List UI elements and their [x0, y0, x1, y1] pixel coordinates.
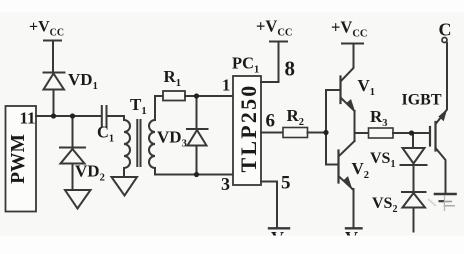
wire VD1 anode to node A [53, 90, 55, 117]
wire T1 primary to ground [123, 168, 125, 177]
IGBT collector arrowhead [439, 110, 447, 121]
svg-text:IGBT: IGBT [402, 92, 442, 109]
diode VD3 [187, 129, 208, 146]
wire VS1 to VS2 [413, 165, 415, 192]
wire T1 secondary bottom to PC1 pin 3 [155, 168, 233, 175]
wire V1 base to rail [326, 89, 341, 91]
capacitor C1 [102, 106, 107, 126]
+Vcc supply 3 bar (above V1) [342, 43, 363, 45]
svg-text:1: 1 [222, 76, 230, 95]
transistor V2 collector wire [340, 141, 355, 156]
wire VD3 anode to node C [196, 146, 198, 175]
ground (below VD2) [65, 190, 91, 209]
svg-text:PWM: PWM [8, 134, 29, 184]
IGBT collector [436, 43, 447, 124]
transistor V2 emitter arrowhead [344, 177, 352, 188]
transformer T1 primary winding [124, 120, 130, 168]
svg-text:6: 6 [266, 111, 276, 132]
transistor V1 collector wire from +Vcc3 [342, 44, 354, 81]
diode VD1 [44, 73, 65, 90]
node +Vcc2 bar [270, 41, 287, 43]
terminal C circle [442, 38, 447, 43]
-Vcc bar 2 [346, 227, 362, 229]
wire T1 secondary top to R1 [155, 96, 163, 120]
wire C1 to T1 primary [107, 116, 125, 120]
transformer T1 core [137, 120, 140, 166]
transistor V1 base bar [339, 77, 341, 104]
ground (below T1 primary) [112, 177, 138, 196]
wire R1 to PC1 pin 1 [185, 95, 233, 97]
diode VD2 [60, 148, 85, 164]
wire V2 emitter to -Vcc rail 2 [353, 189, 354, 228]
svg-text:TLP250: TLP250 [236, 84, 261, 173]
wire base rail to V2 base [326, 164, 339, 166]
junction node A1 (VD1 branch) [51, 113, 56, 118]
svg-text:5: 5 [281, 173, 291, 194]
svg-text:3: 3 [221, 174, 230, 194]
wire R3 to gate node [393, 132, 430, 134]
optocoupler U: PC1 TLP250 body [233, 76, 261, 185]
svg-text:11: 11 [20, 109, 36, 128]
junction node B (VD3 top) [194, 93, 199, 98]
bottom white band [0, 236, 464, 254]
resistor R3 [369, 128, 394, 138]
wire PC1 pin 8 to +Vcc2 [261, 42, 279, 82]
junction base node [323, 130, 328, 135]
wire node B to VD3 cathode [196, 96, 198, 129]
wire PC1 pin 5 to -Vcc rail 1 [261, 182, 277, 229]
IGBT body bar [434, 122, 436, 151]
transistor V2 emitter [340, 177, 353, 189]
emitter rail artifact marks [428, 196, 455, 212]
junction gate node [409, 130, 414, 135]
transistor V1 emitter [342, 99, 355, 112]
node +Vcc1 bar [44, 40, 61, 42]
-Vcc bar 1 [269, 227, 289, 229]
transformer T1 secondary winding [149, 120, 155, 168]
emitter rail V1/V2 [354, 111, 356, 141]
svg-text:8: 8 [285, 57, 296, 81]
resistor R2 [283, 128, 308, 138]
resistor R1 [163, 91, 185, 101]
wire gate node to VS1 [412, 133, 414, 148]
wire VD2 anode to ground [72, 164, 74, 191]
wire R2 to base node [308, 132, 327, 134]
junction node C (VD3 bottom) [194, 172, 199, 177]
zener diode VS1 [401, 148, 427, 165]
transistor V1 emitter arrowhead [347, 100, 355, 111]
wire PWM pin 11 output to C1 [36, 115, 101, 117]
wire node A to VD2 [72, 116, 74, 148]
wire VS2 anode down [413, 208, 415, 232]
wire base rail vertical [325, 90, 327, 165]
transistor V2 base bar [337, 151, 339, 183]
svg-text:C: C [439, 20, 452, 40]
wire PC1 pin 6 to R2 [261, 132, 283, 134]
wire emitter rail to R3 [355, 132, 369, 134]
zener diode VS2 [402, 192, 426, 208]
PWM controller block [6, 106, 37, 212]
junction node A2 (VD2 branch) [70, 113, 75, 118]
IGBT emitter [436, 149, 446, 195]
wire +Vcc1 to VD1 cathode [52, 41, 54, 73]
IGBT gate bar [429, 127, 431, 146]
-Vcc bar 3 (IGBT emitter) [435, 193, 456, 196]
